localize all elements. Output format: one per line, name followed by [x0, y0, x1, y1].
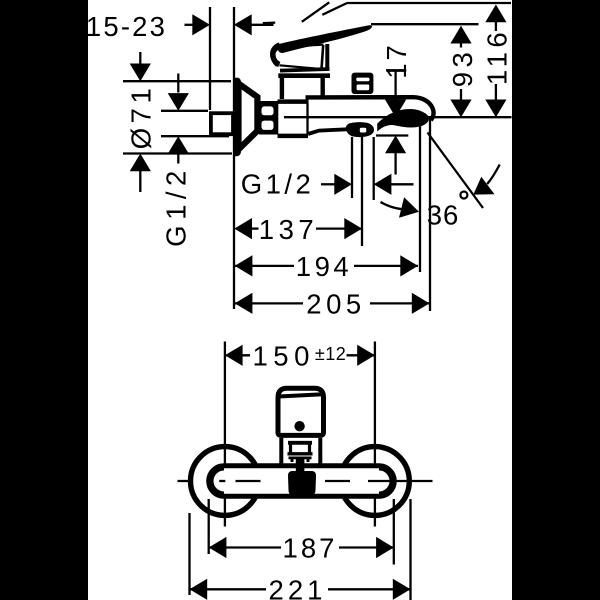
- ext line escutcheon top: [123, 80, 231, 82]
- collar ring side right: [308, 443, 311, 454]
- handle front inner line: [279, 394, 324, 396]
- dim 137 right line: [316, 227, 362, 229]
- ext line aerator left: [351, 137, 353, 198]
- capsule right inner arc: [379, 469, 392, 494]
- svg-text:116: 116: [481, 28, 512, 85]
- angle 36 right leader: [487, 165, 500, 185]
- outlet reference line: [284, 116, 512, 118]
- svg-text:36: 36: [427, 200, 460, 231]
- escutcheon cone body: [239, 84, 258, 150]
- svg-text:15-23: 15-23: [86, 11, 167, 42]
- union nut bottom edge: [278, 134, 309, 139]
- capsule left inner arc: [212, 469, 225, 494]
- dim 221 left line: [190, 588, 267, 590]
- dim 150 left arrow: [225, 345, 243, 366]
- collar lower side right: [307, 458, 310, 462]
- ext line wall box bottom: [161, 135, 229, 137]
- diverter knob body: [352, 73, 374, 94]
- ext line wall box top: [161, 110, 208, 112]
- collar lower side left: [289, 456, 312, 459]
- handle top ridge line 1: [302, 2, 330, 22]
- dim O71 up arrow: [130, 154, 151, 172]
- handle base bottom edge: [280, 69, 330, 71]
- aerator hole: [360, 128, 367, 133]
- s-connector upper window: [262, 106, 274, 115]
- angle 36 left arc arrowhead: [399, 197, 419, 218]
- dim G12 left upper tail: [177, 74, 179, 93]
- outlet stem: [296, 459, 305, 472]
- ext line 150 left: [224, 342, 226, 527]
- dim 150 right arrow: [357, 345, 375, 366]
- dim 15-23 left arrow: [192, 14, 210, 35]
- dim 15-23 right tail: [252, 24, 274, 26]
- ext line 221 left: [188, 513, 190, 595]
- angle 36 diagonal line: [428, 133, 484, 209]
- dim 194 left arrow: [235, 255, 253, 276]
- body capsule: [209, 466, 395, 497]
- ext line 194: [419, 126, 421, 272]
- dim 15-23 left tail: [185, 24, 194, 26]
- angle 36 right arrowhead: [473, 177, 494, 195]
- dim 205 right line: [370, 302, 430, 304]
- dim O71 lower tail: [139, 171, 141, 192]
- spout swoosh: [377, 109, 429, 132]
- outlet blob: [288, 471, 316, 496]
- dim 150 left line: [225, 354, 250, 356]
- svg-text:G1/2: G1/2: [161, 165, 192, 247]
- cartridge neck left: [280, 77, 284, 99]
- ext line aerator bottom: [376, 134, 408, 136]
- dim 17 down arrow: [385, 100, 406, 118]
- cartridge neck right: [321, 77, 325, 99]
- diverter knob window 2: [357, 85, 370, 91]
- handle back knuckle: [273, 45, 280, 64]
- dim O71 down arrow: [130, 64, 151, 82]
- dim G12 mid right tail: [391, 183, 414, 185]
- angle 36 degree ring: [460, 192, 467, 199]
- centerline left center dash: [219, 480, 225, 482]
- handle left stub line: [263, 21, 275, 24]
- svg-text:194: 194: [296, 251, 352, 282]
- dim G12 mid left tail: [321, 183, 335, 185]
- dim 116 upper tail: [495, 22, 497, 31]
- handle grip band: [278, 25, 372, 53]
- svg-text:93: 93: [447, 48, 478, 88]
- dim 205 right arrow: [412, 293, 430, 314]
- dim 194 right arrow: [400, 255, 418, 276]
- collar right side: [318, 438, 322, 464]
- ext line 187 left: [208, 499, 210, 554]
- svg-text:221: 221: [269, 574, 327, 600]
- centerline right: [368, 480, 433, 482]
- wall plane line: [209, 7, 211, 110]
- dim 137 left line: [252, 227, 259, 229]
- centerline left outer segment: [178, 480, 193, 482]
- handle front face: [278, 388, 324, 435]
- right escutcheon circle: [341, 447, 410, 516]
- collar left side: [279, 438, 283, 464]
- dim 187 left arrow: [209, 537, 227, 558]
- s-connector block: [259, 101, 278, 135]
- s-connector lower window: [262, 121, 274, 130]
- dim 221 left arrow: [190, 579, 208, 600]
- left transparent margin bar: [0, 0, 88, 600]
- right transparent margin bar: [512, 0, 600, 600]
- dim 17 top tick: [386, 69, 406, 71]
- centerline dash b: [325, 480, 350, 482]
- dim 137 right arrow: [344, 218, 362, 239]
- dim 17 lower tail: [394, 153, 396, 175]
- collar ring bar 2: [288, 452, 313, 455]
- dim 17 upper tail: [394, 70, 396, 100]
- dim 150 right line: [347, 354, 375, 356]
- escutcheon wall bar: [233, 82, 241, 153]
- dim 116 lower tail: [495, 84, 497, 101]
- svg-text:Ø71: Ø71: [126, 84, 157, 149]
- dim 116 down arrow: [485, 100, 506, 118]
- ext line aerator right: [373, 137, 375, 200]
- dim 93 upper tail: [460, 43, 462, 48]
- ext line escutcheon bottom: [123, 152, 232, 154]
- centerline dash a: [236, 480, 261, 482]
- union nut top edge: [278, 99, 309, 104]
- dim 205 left line: [235, 302, 303, 304]
- collar band: [278, 73, 330, 78]
- collar ring side left: [289, 443, 292, 454]
- dim 194 right line: [354, 265, 418, 267]
- dim 221 right line: [328, 588, 411, 590]
- left escutcheon circle: [191, 447, 260, 516]
- svg-text:137: 137: [259, 214, 318, 245]
- handle knuckle outer thin line: [272, 48, 279, 56]
- ext line 205: [429, 118, 431, 311]
- dim O71 upper tail: [139, 52, 141, 65]
- angle 36 left arc: [381, 202, 403, 209]
- dim 187 right line: [339, 546, 394, 548]
- ext line handle tip 93: [371, 23, 479, 25]
- diverter knob window 1: [356, 78, 369, 82]
- ext line 187 right: [393, 499, 395, 565]
- handle inner curve: [284, 45, 324, 49]
- ext line 150 right: [374, 342, 376, 527]
- drawing background: [88, 0, 512, 600]
- dim G12 left up arrow: [168, 136, 189, 154]
- dim G12 mid left arrow: [374, 174, 392, 195]
- dim 15-23 right arrow: [234, 14, 252, 35]
- dim 93 lower tail: [460, 89, 462, 101]
- dim G12 left down arrow: [168, 93, 189, 111]
- ext line 221 right: [409, 499, 411, 600]
- collar ring bar 1: [288, 441, 312, 445]
- dim 116 up arrow: [485, 5, 506, 23]
- handle top ridge line 2: [322, 3, 347, 15]
- faucet body bottom edge: [308, 129, 350, 134]
- ext line handle top 116: [347, 2, 511, 4]
- dim 137 left arrow: [234, 218, 252, 239]
- faucet body top edge and end cap: [306, 97, 434, 120]
- dim 17 up arrow: [385, 136, 406, 154]
- dim 194 left line: [235, 265, 294, 267]
- tile plane reference line: [233, 7, 235, 309]
- dim 205 left arrow: [235, 293, 253, 314]
- handle underside front edge: [280, 65, 323, 69]
- handle front hole: [294, 421, 304, 431]
- dim 93 up arrow: [450, 26, 471, 44]
- svg-text:187: 187: [283, 533, 338, 564]
- aerator: [346, 122, 374, 137]
- dim G12 mid right arrow: [334, 174, 352, 195]
- dim 221 right arrow: [393, 579, 411, 600]
- dim 187 right arrow: [376, 537, 394, 558]
- svg-text:205: 205: [306, 289, 365, 320]
- union nut right edge: [306, 103, 308, 134]
- handle underside right edge: [322, 45, 324, 69]
- handle neck front thick: [325, 44, 329, 71]
- dim 93 down arrow: [450, 100, 471, 118]
- dim G12 left lower tail: [177, 154, 179, 164]
- dim 187 left line: [209, 546, 281, 548]
- svg-text:G1/2: G1/2: [241, 169, 315, 200]
- wall connection box: [211, 113, 233, 134]
- ext line aerator center: [361, 137, 363, 246]
